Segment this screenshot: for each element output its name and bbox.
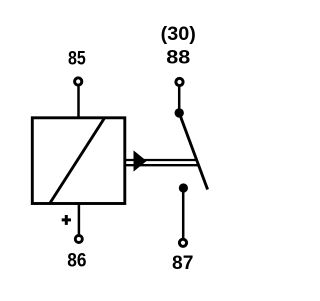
common contact junction dot <box>175 108 184 117</box>
movable switch arm <box>179 114 207 190</box>
label (30) alternate designation <box>161 24 196 45</box>
actuator double link upper line <box>125 159 198 161</box>
terminal 86 open circle <box>75 236 82 243</box>
actuator arrowhead <box>134 150 147 171</box>
terminal 88 open circle <box>176 78 183 85</box>
svg-text:86: 86 <box>67 250 86 271</box>
label terminal 85 <box>68 48 86 69</box>
svg-text:87: 87 <box>172 253 193 274</box>
label terminal 86 <box>67 250 86 271</box>
label terminal 87 <box>172 253 193 274</box>
svg-text:88: 88 <box>166 47 190 69</box>
actuator double link lower line <box>125 164 200 166</box>
svg-text:85: 85 <box>68 48 86 69</box>
relay coil box <box>32 118 125 204</box>
wire terminal 88 to common contact <box>178 86 181 112</box>
normally-open contact dot 87 <box>179 183 188 192</box>
wire contact to terminal 87 <box>182 190 185 239</box>
plus polarity mark <box>62 215 71 225</box>
terminal 85 open circle <box>75 78 82 85</box>
wire coil to terminal 86 <box>78 203 81 236</box>
wire terminal 85 to coil <box>77 85 80 118</box>
svg-text:(30): (30) <box>161 24 196 45</box>
label terminal 88 <box>166 47 190 69</box>
coil diagonal line <box>50 118 105 203</box>
terminal 87 open circle <box>179 239 186 246</box>
